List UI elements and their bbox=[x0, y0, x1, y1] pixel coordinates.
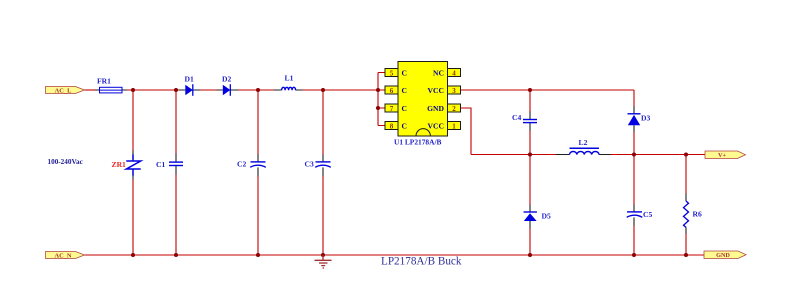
capacitor C3 bbox=[305, 160, 331, 169]
svg-text:NC: NC bbox=[433, 69, 444, 78]
fuse FR1 bbox=[97, 77, 122, 93]
wire C4 to middle rail to D5 bbox=[529, 131, 531, 206]
capacitor C1 bbox=[156, 160, 183, 169]
wire C3 branch lower bbox=[322, 176, 324, 255]
svg-text:ZR1: ZR1 bbox=[112, 160, 127, 169]
svg-text:3: 3 bbox=[452, 87, 456, 95]
wire C1 branch upper bbox=[175, 90, 177, 154]
svg-text:7: 7 bbox=[390, 105, 394, 113]
wire D5 lower segment bbox=[529, 228, 531, 255]
wire bottom rail bbox=[85, 254, 705, 256]
wire top rail AC_L to fuse bbox=[85, 89, 97, 91]
port V+ bbox=[705, 151, 746, 159]
wire R6 branch upper bbox=[685, 155, 687, 195]
svg-text:4: 4 bbox=[452, 69, 456, 77]
svg-text:C5: C5 bbox=[643, 210, 652, 219]
wire C2 branch upper bbox=[257, 90, 259, 155]
svg-text:GND: GND bbox=[427, 104, 444, 113]
svg-text:L1: L1 bbox=[285, 74, 294, 83]
inductor L1 bbox=[282, 74, 296, 91]
wire C1 branch lower bbox=[175, 174, 177, 255]
svg-text:AC_L: AC_L bbox=[55, 88, 72, 95]
pin 3 bbox=[448, 86, 461, 95]
svg-text:100-240Vac: 100-240Vac bbox=[48, 158, 84, 166]
pin 4 bbox=[448, 69, 461, 78]
pin 6 bbox=[385, 86, 398, 95]
wire L2 to V+ bbox=[610, 154, 705, 156]
capacitor C5 bbox=[627, 210, 653, 219]
svg-text:VCC: VCC bbox=[428, 86, 444, 95]
pin names bbox=[402, 69, 445, 131]
pin 1 bbox=[448, 122, 461, 131]
svg-text:VCC: VCC bbox=[428, 122, 444, 131]
svg-text:C: C bbox=[402, 69, 407, 78]
port AC_L bbox=[46, 87, 85, 95]
IC U1 body bbox=[398, 62, 448, 137]
svg-text:5: 5 bbox=[390, 69, 394, 77]
capacitor C4 bbox=[512, 113, 537, 123]
wire C2 branch lower bbox=[257, 176, 259, 255]
wire R6 branch lower bbox=[685, 233, 687, 255]
svg-text:R6: R6 bbox=[693, 210, 702, 219]
svg-text:6: 6 bbox=[390, 87, 394, 95]
wire L1 to IC bbox=[302, 89, 378, 91]
svg-text:C2: C2 bbox=[237, 160, 246, 169]
pin 7 bbox=[385, 104, 398, 113]
port GND bbox=[704, 251, 746, 259]
component black pin leads bbox=[96, 90, 687, 234]
svg-text:C: C bbox=[402, 104, 407, 113]
svg-text:U1 LP2178A/B: U1 LP2178A/B bbox=[394, 137, 441, 146]
svg-text:C3: C3 bbox=[305, 160, 314, 169]
diode D2 bbox=[222, 75, 231, 96]
diode D1 bbox=[185, 75, 194, 96]
varistor ZR1 bbox=[112, 155, 141, 176]
wire C3 branch upper bbox=[322, 90, 324, 155]
svg-text:V+: V+ bbox=[718, 152, 726, 159]
capacitor C2 bbox=[237, 160, 266, 169]
svg-text:2: 2 bbox=[452, 105, 456, 113]
svg-text:L2: L2 bbox=[579, 138, 588, 147]
svg-text:D2: D2 bbox=[222, 75, 231, 84]
wire top rail fuse to D1 bbox=[127, 89, 180, 91]
wire ZR1 branch upper bbox=[132, 90, 134, 151]
wire IC left pin bus bbox=[378, 73, 385, 126]
wire middle rail to L2 bbox=[471, 154, 557, 156]
ground bbox=[315, 255, 332, 268]
svg-text:1: 1 bbox=[452, 122, 456, 130]
svg-text:D1: D1 bbox=[185, 75, 194, 84]
wire ZR1 branch lower bbox=[132, 179, 134, 255]
diode D3 bbox=[628, 114, 651, 126]
svg-text:C: C bbox=[402, 122, 407, 131]
wire D1 to D2 bbox=[200, 89, 217, 91]
node junction dots bbox=[131, 88, 688, 257]
wire C4 branch upper bbox=[529, 90, 531, 112]
wire D3 to C5 segment bbox=[633, 132, 635, 206]
svg-text:C4: C4 bbox=[512, 113, 521, 122]
svg-text:C1: C1 bbox=[156, 160, 165, 169]
resistor R6 bbox=[684, 201, 702, 227]
svg-text:D5: D5 bbox=[542, 212, 551, 221]
pin 2 bbox=[448, 104, 461, 113]
pin 8 bbox=[385, 122, 398, 131]
pin 5 bbox=[385, 69, 398, 78]
svg-text:LP2178A/B Buck: LP2178A/B Buck bbox=[381, 256, 462, 268]
wire pin2 stub bbox=[460, 108, 472, 155]
wire D2 to L1 bbox=[238, 89, 275, 91]
diode D5 bbox=[524, 212, 551, 222]
inductor L2 bbox=[570, 138, 600, 154]
svg-text:D3: D3 bbox=[641, 114, 650, 123]
port AC_N bbox=[46, 252, 85, 260]
svg-text:FR1: FR1 bbox=[97, 77, 111, 86]
svg-text:C: C bbox=[402, 86, 407, 95]
svg-text:GND: GND bbox=[716, 252, 730, 259]
wire C5 lower segment bbox=[633, 226, 635, 256]
svg-text:8: 8 bbox=[390, 122, 394, 130]
wire pin3 rail bbox=[460, 89, 635, 91]
wire D3 upper segment bbox=[633, 90, 635, 107]
svg-text:AC_N: AC_N bbox=[54, 253, 71, 260]
